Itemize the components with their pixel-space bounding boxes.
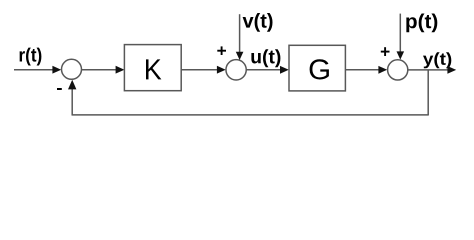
summing junction S1 (62, 59, 82, 79)
label y(t) (423, 52, 451, 68)
wire S2 to block G (247, 66, 289, 74)
block G (289, 45, 345, 91)
summing junction S2 (226, 60, 246, 80)
label r(t) (20, 48, 42, 66)
summing junction S3 (388, 60, 408, 80)
wire feedback bottom run (72, 114, 429, 116)
wire p(t) disturbance into S3 (397, 14, 405, 60)
wire feedback tap down from output (427, 70, 429, 115)
wire input arrow to summing junction S1 (14, 66, 61, 74)
label p(t) (406, 14, 437, 33)
wire G to summing junction S3 (346, 66, 388, 74)
plus sign at S2 (217, 46, 226, 55)
minus sign at S1 (57, 88, 62, 90)
wire K to summing junction S2 (182, 66, 226, 74)
wire feedback riser into S1 (68, 80, 76, 115)
label v(t) (243, 13, 273, 32)
plus sign at S3 (381, 47, 390, 56)
label u(t) (251, 49, 280, 67)
wire output arrow y(t) (408, 66, 456, 74)
wire S1 to block K (82, 66, 124, 74)
block K (124, 45, 181, 91)
wire v(t) disturbance into S2 (236, 14, 244, 60)
